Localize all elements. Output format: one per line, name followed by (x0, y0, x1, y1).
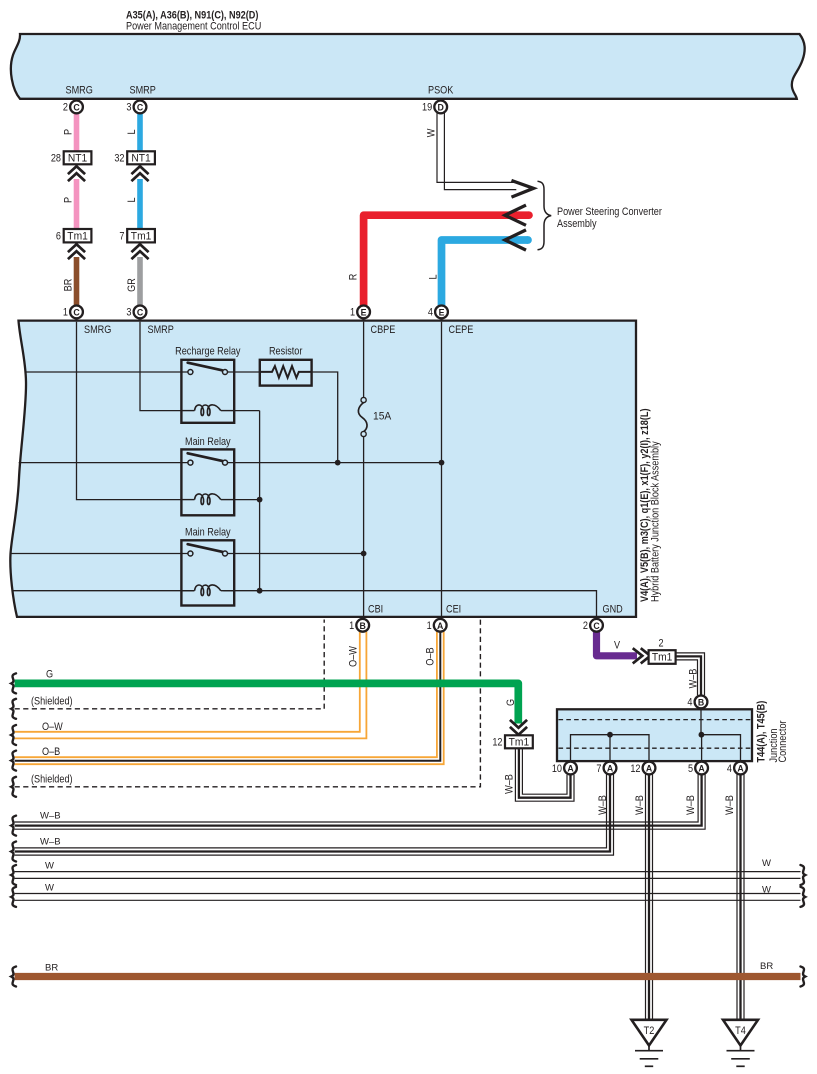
svg-text:Power Steering Converter: Power Steering Converter (557, 206, 662, 218)
svg-text:A: A (737, 764, 744, 774)
svg-text:O–B: O–B (425, 647, 437, 665)
svg-text:12: 12 (492, 737, 502, 749)
svg-text:10: 10 (552, 763, 562, 775)
svg-text:BR: BR (45, 963, 58, 974)
svg-text:T44(A), T45(B): T44(A), T45(B) (756, 701, 768, 763)
svg-text:Connector: Connector (777, 720, 789, 763)
svg-text:GR: GR (126, 278, 138, 292)
svg-text:GND: GND (603, 604, 623, 616)
svg-text:Main Relay: Main Relay (185, 436, 231, 448)
svg-text:3: 3 (126, 307, 131, 319)
svg-text:(Shielded): (Shielded) (31, 774, 73, 786)
svg-text:W–B: W–B (724, 795, 736, 815)
svg-text:A: A (698, 764, 705, 774)
svg-text:W: W (45, 861, 54, 872)
svg-text:2: 2 (658, 638, 663, 650)
svg-text:G: G (505, 699, 517, 706)
svg-text:W: W (762, 885, 771, 896)
svg-text:G: G (46, 669, 53, 681)
svg-text:P: P (63, 197, 75, 203)
svg-text:C: C (73, 103, 80, 113)
svg-text:Tm1: Tm1 (652, 651, 673, 663)
svg-text:2: 2 (63, 102, 68, 114)
svg-text:W: W (762, 858, 771, 869)
svg-text:T4: T4 (735, 1025, 746, 1037)
svg-text:O–W: O–W (42, 721, 63, 733)
svg-text:D: D (438, 103, 444, 113)
svg-text:O–W: O–W (348, 646, 360, 667)
svg-text:4: 4 (727, 763, 732, 775)
svg-text:BR: BR (63, 279, 75, 292)
svg-text:Assembly: Assembly (557, 218, 597, 230)
svg-text:CBPE: CBPE (371, 324, 396, 336)
svg-text:19: 19 (422, 102, 432, 114)
svg-text:BR: BR (760, 961, 773, 972)
svg-text:Hybrid Battery Junction Block: Hybrid Battery Junction Block Assembly (650, 441, 662, 602)
svg-text:12: 12 (630, 763, 640, 775)
svg-text:3: 3 (126, 102, 131, 114)
svg-text:W: W (426, 128, 438, 137)
svg-text:SMRP: SMRP (148, 324, 175, 336)
svg-text:L: L (126, 129, 138, 134)
svg-text:NT1: NT1 (131, 152, 150, 164)
svg-text:6: 6 (56, 231, 61, 243)
svg-text:7: 7 (119, 231, 124, 243)
svg-text:PSOK: PSOK (428, 85, 454, 97)
svg-text:1: 1 (427, 620, 432, 632)
svg-text:V: V (614, 640, 620, 652)
svg-text:4: 4 (428, 307, 433, 319)
svg-text:Recharge Relay: Recharge Relay (175, 346, 241, 358)
svg-text:28: 28 (51, 153, 61, 165)
svg-text:CBI: CBI (368, 604, 383, 616)
svg-text:1: 1 (349, 620, 354, 632)
svg-text:SMRP: SMRP (130, 85, 157, 97)
svg-text:5: 5 (688, 763, 693, 775)
svg-text:15A: 15A (373, 410, 391, 422)
svg-text:(Shielded): (Shielded) (31, 696, 73, 708)
svg-text:Power Management Control ECU: Power Management Control ECU (126, 21, 261, 33)
svg-text:T2: T2 (644, 1025, 655, 1037)
svg-text:O–B: O–B (42, 746, 60, 758)
svg-text:B: B (360, 621, 366, 631)
svg-text:C: C (137, 308, 144, 318)
svg-text:A: A (437, 621, 444, 631)
svg-text:W–B: W–B (40, 811, 61, 822)
svg-text:C: C (593, 621, 600, 631)
svg-text:Tm1: Tm1 (509, 736, 530, 748)
svg-text:7: 7 (596, 763, 601, 775)
svg-text:1: 1 (350, 307, 355, 319)
svg-text:B: B (698, 698, 704, 708)
svg-text:W–B: W–B (634, 795, 646, 815)
svg-text:NT1: NT1 (68, 152, 87, 164)
svg-text:Tm1: Tm1 (131, 230, 152, 242)
svg-text:W–B: W–B (504, 774, 516, 794)
svg-text:W: W (45, 883, 54, 894)
svg-text:A: A (567, 764, 574, 774)
svg-text:E: E (361, 308, 367, 318)
svg-text:E: E (439, 308, 445, 318)
svg-text:C: C (137, 103, 144, 113)
svg-text:1: 1 (63, 307, 68, 319)
svg-text:4: 4 (687, 697, 692, 709)
svg-text:CEPE: CEPE (449, 324, 474, 336)
svg-text:Resistor: Resistor (269, 346, 303, 358)
svg-text:CEI: CEI (446, 604, 461, 616)
svg-text:W–B: W–B (597, 795, 609, 815)
svg-text:2: 2 (583, 620, 588, 632)
svg-text:L: L (428, 274, 440, 279)
svg-text:W–B: W–B (685, 795, 697, 815)
svg-text:A: A (607, 764, 614, 774)
svg-text:R: R (348, 274, 360, 281)
svg-text:32: 32 (114, 153, 124, 165)
svg-text:SMRG: SMRG (84, 324, 111, 336)
svg-text:W–B: W–B (40, 837, 61, 848)
svg-text:A: A (646, 764, 653, 774)
svg-text:C: C (73, 308, 80, 318)
svg-text:SMRG: SMRG (66, 85, 93, 97)
svg-text:P: P (63, 129, 75, 135)
svg-text:Main Relay: Main Relay (185, 527, 231, 539)
svg-text:L: L (126, 197, 138, 202)
svg-text:W–B: W–B (688, 668, 700, 688)
svg-text:Tm1: Tm1 (67, 230, 88, 242)
